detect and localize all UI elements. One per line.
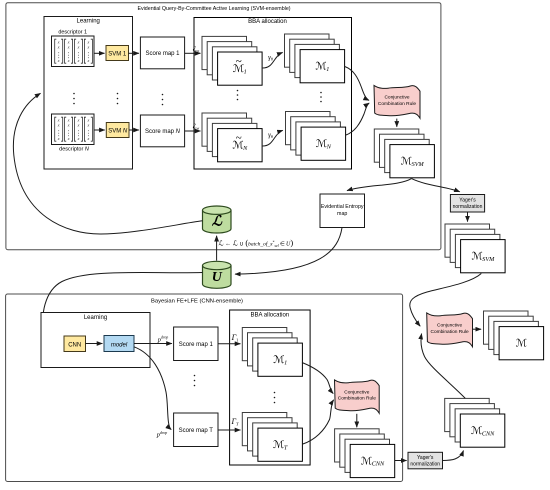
svg-text:x: x <box>77 58 80 63</box>
stack: M N (top) <box>286 112 346 161</box>
descriptor N vectors box <box>52 114 95 145</box>
svg-text:Score map 1: Score map 1 <box>179 342 214 348</box>
arrow: M_CNN to Yager (bottom) <box>395 460 407 462</box>
box: Score map N <box>140 115 184 147</box>
arrow: Evidential Entropy map to U <box>235 228 342 274</box>
arrow: MT stack to bottom flag <box>303 400 334 444</box>
svg-text:BBA allocation: BBA allocation <box>248 19 287 25</box>
arrow: CNN to model <box>86 343 103 345</box>
arrow: Yager bottom to M_CNN right stack <box>443 451 464 461</box>
box: Score map T <box>174 413 218 447</box>
svg-text:Combination Rule: Combination Rule <box>431 329 469 335</box>
arrow: SVM1 to Score map 1 <box>129 52 139 54</box>
arrow: U down to CNN (bottom box) <box>43 272 202 343</box>
svg-text:Yager's: Yager's <box>459 198 476 204</box>
arrow: M_SVM to Yager normalization <box>412 179 460 192</box>
cylinder: unlabeled set U <box>203 261 232 288</box>
dots: SVM column <box>117 93 119 105</box>
svg-text:x: x <box>77 44 80 49</box>
svg-text:Conjunctive: Conjunctive <box>344 389 369 395</box>
flag: Conjunctive Combination Rule (right) <box>427 313 473 347</box>
arrow: L loop back to Learning box <box>13 93 202 234</box>
arrow: descriptorN to SVMN <box>94 129 105 131</box>
stack: M (final) <box>484 311 544 360</box>
box: Learning (bottom) <box>41 313 150 368</box>
svg-text:x: x <box>77 122 80 127</box>
svg-text:BBA allocation: BBA allocation <box>250 313 289 319</box>
box: BBA allocation (top) <box>194 18 352 170</box>
arrow: SVMN to Score map N <box>129 129 139 131</box>
svg-text:x: x <box>77 136 80 141</box>
arrow: Score map 1 to M-tilde-1 stack (E_w) <box>185 52 201 54</box>
box: CNN <box>64 336 86 352</box>
arrow: gamma curve M-tilde1 to M1 <box>263 52 283 68</box>
box: Evidential Entropy map <box>320 194 365 228</box>
svg-text:Combination Rule: Combination Rule <box>378 101 416 107</box>
svg-text:descriptor 1: descriptor 1 <box>58 30 87 36</box>
stack: M 1 (bottom) <box>242 328 302 377</box>
arrow: Yager to M_SVM outside stack <box>467 212 469 222</box>
arrow: bottom flag to M_CNN stack <box>356 414 358 427</box>
arrow: gamma curve M-tildeN to MN <box>263 130 283 146</box>
svg-text:x: x <box>87 44 90 49</box>
svg-text:U: U <box>212 270 223 285</box>
stack: M_SVM (outside, right) <box>445 224 505 273</box>
stack: M_SVM (inside top box) <box>374 129 434 178</box>
svg-text:x: x <box>57 136 60 141</box>
svg-text:model: model <box>111 342 128 348</box>
svg-text:x: x <box>67 58 70 63</box>
dots: M stacks column (top) <box>320 92 322 103</box>
svg-text:Learning: Learning <box>77 19 100 25</box>
arrow: model to Score map T (p drop) <box>134 347 171 430</box>
arrow: Score map N to M-tilde-N stack (E_w) <box>185 130 201 132</box>
arrow: M1 stack to top flag <box>345 67 369 101</box>
dots: descriptor column <box>73 93 75 105</box>
svg-text:Combination Rule: Combination Rule <box>338 396 376 402</box>
svg-text:SVM 1: SVM 1 <box>108 52 127 58</box>
box: model <box>104 336 134 352</box>
svg-text:ℳ: ℳ <box>516 338 528 350</box>
stack: M_CNN (bottom) <box>335 429 395 478</box>
box: Yager's normalization (bottom) <box>408 452 443 469</box>
dots: score maps column (bottom) <box>194 375 196 387</box>
stack: M T (bottom) <box>242 413 302 462</box>
box: Score map 1 <box>140 37 184 69</box>
svg-text:x: x <box>57 58 60 63</box>
svg-text:Score map T: Score map T <box>179 428 214 434</box>
box: SVM N <box>106 123 129 138</box>
svg-text:x: x <box>67 136 70 141</box>
stack: M 1 (top) <box>285 34 345 83</box>
svg-text:CNN: CNN <box>68 342 81 348</box>
cylinder: labeled set L <box>203 206 232 233</box>
container: Evidential QBC Active Learning (SVM-ensemble) <box>6 3 441 250</box>
arrow: top flag to M_SVM stack <box>396 119 398 127</box>
box: BBA allocation (bottom) <box>230 310 311 465</box>
dots: M-tilde stacks column <box>237 90 239 101</box>
box: Score map 1 (bottom) <box>174 327 218 361</box>
svg-text:normalization: normalization <box>453 204 483 210</box>
svg-text:Evidential Query-By-Committee: Evidential Query-By-Committee Active Lea… <box>137 6 290 12</box>
stack: M-tilde N <box>202 113 262 162</box>
svg-text:Conjunctive: Conjunctive <box>384 95 409 101</box>
arrow: descriptor1 to SVM1 <box>94 52 105 54</box>
arrow: M_SVM outside to right flag <box>410 274 482 327</box>
svg-text:SVM N: SVM N <box>108 129 128 135</box>
svg-text:Yager's: Yager's <box>417 455 434 461</box>
svg-text:Bayesian FE+LFE (CNN-ensemble): Bayesian FE+LFE (CNN-ensemble) <box>151 299 243 305</box>
stack: M_CNN (right) <box>445 398 505 447</box>
svg-text:map: map <box>337 211 347 217</box>
descriptor 1 vectors box <box>52 36 95 67</box>
arrow: M_SVM to Evidential Entropy map <box>347 179 412 191</box>
arrow: Score map 1 to M1 stack (Gamma 1) <box>218 343 240 345</box>
arrow: M_CNN right to right flag <box>421 334 465 399</box>
svg-text:x: x <box>87 58 90 63</box>
arrow: Score map T to MT stack (Gamma T) <box>218 429 240 431</box>
svg-text:normalization: normalization <box>410 461 440 467</box>
svg-text:x: x <box>87 136 90 141</box>
svg-text:x: x <box>57 122 60 127</box>
svg-text:ℒ: ℒ <box>212 215 223 230</box>
arrow: MN stack to top flag <box>346 103 369 135</box>
container: Bayesian FE+LFE (CNN-ensemble) <box>6 294 403 482</box>
svg-text:x: x <box>87 122 90 127</box>
svg-text:Learning: Learning <box>84 315 107 321</box>
svg-text:Score map 1: Score map 1 <box>145 51 180 57</box>
flag: Conjunctive Combination Rule (bottom) <box>335 380 380 413</box>
arrow: right flag to M stack <box>473 328 481 330</box>
svg-text:x: x <box>67 122 70 127</box>
box: Learning (top) <box>44 17 133 170</box>
svg-text:Evidential Entropy: Evidential Entropy <box>321 204 364 210</box>
svg-text:~: ~ <box>236 132 242 144</box>
dots: score map column <box>162 94 164 106</box>
dots: bottom BBA column <box>274 392 276 404</box>
svg-text:x: x <box>57 44 60 49</box>
stack: M-tilde 1 <box>202 36 262 85</box>
svg-text:~: ~ <box>236 55 242 67</box>
flag: Conjunctive Combination Rule (top) <box>374 85 420 118</box>
svg-text:Conjunctive: Conjunctive <box>437 323 462 329</box>
svg-text:Score map N: Score map N <box>145 129 181 135</box>
arrow: model to Score map 1 (p drop) <box>134 343 172 345</box>
box: Yager's normalization (top) <box>450 195 484 213</box>
arrow: M1 bottom stack to bottom flag <box>302 363 333 394</box>
svg-text:x: x <box>67 44 70 49</box>
box: SVM 1 <box>106 46 129 61</box>
svg-text:descriptor N: descriptor N <box>59 147 89 153</box>
arrow: U to L <box>216 236 218 261</box>
